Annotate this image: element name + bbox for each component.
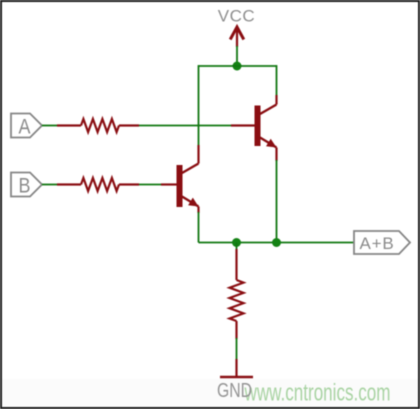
power VCC: [218, 7, 255, 48]
wire pin B to R2: [42, 184, 58, 186]
wire Q2 emitter down: [198, 212, 200, 243]
svg-text:VCC: VCC: [218, 7, 255, 26]
resistor R1: [57, 119, 139, 132]
svg-text:GND: GND: [217, 380, 252, 402]
resistor R2: [57, 178, 139, 191]
wire top rail: [199, 65, 277, 67]
wire right vertical to Q1 collector: [276, 65, 278, 95]
node VCC junction: [233, 62, 242, 71]
transistor Q2: [161, 145, 199, 213]
ground: [217, 359, 253, 402]
wire pin A to R1: [42, 125, 58, 127]
pin A: [11, 114, 42, 139]
wire R3 to ground: [236, 338, 238, 360]
wire R2 to Q2 base: [139, 184, 161, 186]
node Q1 emitter junction: [272, 238, 281, 247]
wire left vertical to Q2 collector: [198, 65, 200, 146]
svg-text:A+B: A+B: [359, 234, 394, 253]
pin B: [11, 173, 42, 198]
svg-text:B: B: [19, 175, 31, 198]
transistor Q1: [231, 95, 277, 161]
wire junction to R3: [236, 243, 238, 251]
node R3 junction: [232, 238, 241, 247]
svg-text:www.cntronics.com: www.cntronics.com: [244, 380, 391, 407]
resistor R3: [230, 249, 244, 339]
wire Q1 emitter to output rail: [276, 160, 278, 243]
wire R1 to Q1 base: [139, 125, 231, 127]
svg-text:A: A: [19, 116, 31, 139]
wire bottom rail to output: [199, 242, 355, 244]
wire VCC to rail: [236, 46, 238, 66]
pin A+B output: [354, 231, 410, 254]
